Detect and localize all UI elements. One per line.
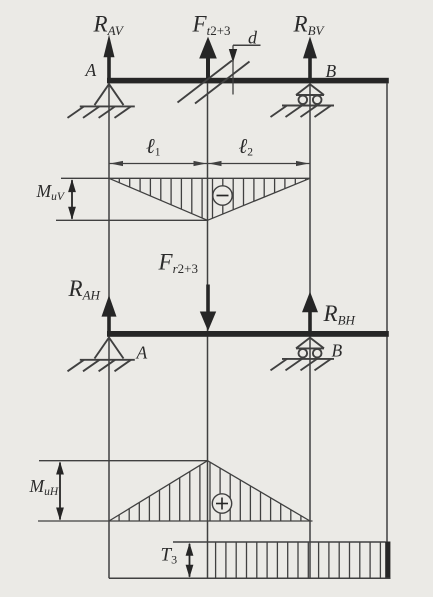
svg-text:B: B [332,341,343,361]
svg-text:A: A [136,343,148,363]
svg-text:d: d [248,28,258,48]
svg-text:A: A [85,60,97,80]
svg-text:B: B [326,61,337,81]
